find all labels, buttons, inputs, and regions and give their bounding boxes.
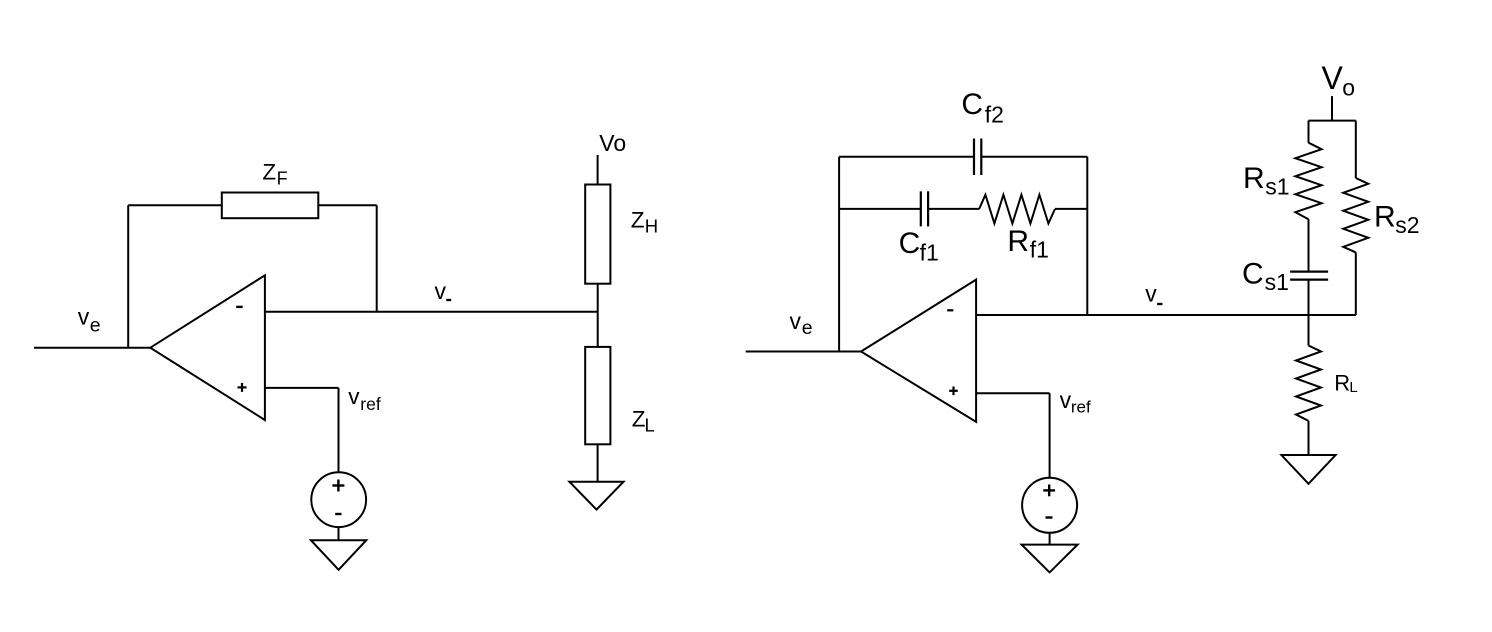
ground [569, 482, 623, 510]
svg-text:v: v [348, 384, 360, 409]
svg-text:v: v [790, 308, 802, 334]
label v_e [78, 303, 101, 336]
wire [976, 314, 1356, 316]
svg-text:C: C [899, 227, 921, 260]
svg-text:Z: Z [631, 208, 645, 233]
capacitor Cf1 [899, 191, 939, 265]
wire [1308, 219, 1310, 271]
source Vref [1022, 478, 1077, 533]
svg-text:Z: Z [262, 160, 276, 185]
wire [265, 311, 598, 313]
wire [1055, 208, 1087, 210]
svg-text:s1: s1 [1265, 269, 1289, 295]
wire [597, 444, 599, 481]
wire [838, 157, 840, 352]
label vref [348, 384, 381, 414]
svg-text:f1: f1 [920, 239, 939, 265]
wire [1086, 157, 1088, 315]
wire [1049, 533, 1051, 545]
capacitor Cs1 [1242, 257, 1328, 295]
op-amp U1 [150, 275, 265, 420]
svg-text:L: L [1349, 379, 1357, 396]
wire [1355, 252, 1357, 315]
wire [376, 205, 378, 311]
svg-text:o: o [1342, 74, 1355, 100]
label v- [435, 278, 452, 304]
svg-text:R: R [1374, 201, 1396, 234]
svg-text:v: v [1145, 281, 1157, 307]
capacitor Cf2 [961, 88, 1004, 175]
label v- [1145, 281, 1162, 307]
wire [338, 388, 340, 472]
svg-text:v: v [1060, 387, 1072, 413]
wire [928, 208, 979, 210]
resistor Rf1 [979, 195, 1055, 263]
svg-text:f2: f2 [985, 101, 1004, 127]
ground [311, 540, 366, 570]
wire [1308, 421, 1310, 455]
wire [34, 347, 150, 349]
wire [597, 155, 599, 185]
wire [128, 204, 377, 206]
label Vo [1322, 60, 1356, 100]
wire [1331, 96, 1333, 121]
wire [1308, 121, 1310, 143]
wire [265, 387, 339, 389]
svg-text:v: v [78, 303, 90, 329]
wire [839, 156, 974, 158]
svg-text:s2: s2 [1395, 212, 1419, 238]
wire [1049, 393, 1051, 478]
wire [746, 351, 861, 353]
wire [1308, 280, 1310, 315]
label vref [1060, 387, 1091, 417]
wire [839, 208, 921, 210]
svg-text:C: C [961, 88, 983, 121]
ground [1281, 455, 1335, 484]
svg-text:F: F [277, 169, 288, 189]
svg-text:ref: ref [1071, 398, 1091, 417]
svg-text:f1: f1 [1030, 237, 1049, 263]
ground [1022, 545, 1078, 573]
svg-text:s1: s1 [1265, 174, 1289, 200]
wire [976, 392, 1050, 394]
svg-text:R: R [1334, 371, 1350, 396]
svg-text:V: V [1322, 60, 1344, 96]
svg-text:R: R [1007, 225, 1029, 258]
svg-text:L: L [645, 414, 655, 435]
wire [981, 156, 1087, 158]
wire [338, 527, 340, 540]
svg-text:R: R [1243, 162, 1265, 195]
op-amp U2 [861, 280, 976, 422]
svg-text:e: e [802, 317, 813, 339]
svg-text:C: C [1242, 257, 1264, 290]
svg-text:Vo: Vo [599, 130, 626, 156]
svg-text:e: e [90, 314, 101, 336]
wire [1309, 120, 1356, 122]
wire [1308, 315, 1310, 346]
svg-text:H: H [645, 216, 658, 237]
resistor Rs1 [1243, 143, 1322, 220]
impedance ZF [222, 160, 318, 219]
svg-text:ref: ref [360, 394, 381, 414]
resistor Rs2 [1343, 178, 1419, 252]
wire [597, 284, 599, 347]
impedance ZL [585, 347, 655, 444]
label v_e [790, 308, 813, 339]
source Vref [311, 472, 366, 527]
impedance ZH [585, 185, 658, 284]
svg-text:v: v [435, 278, 447, 304]
wire [1355, 121, 1357, 178]
resistor RL [1296, 346, 1358, 421]
wire [127, 205, 129, 347]
